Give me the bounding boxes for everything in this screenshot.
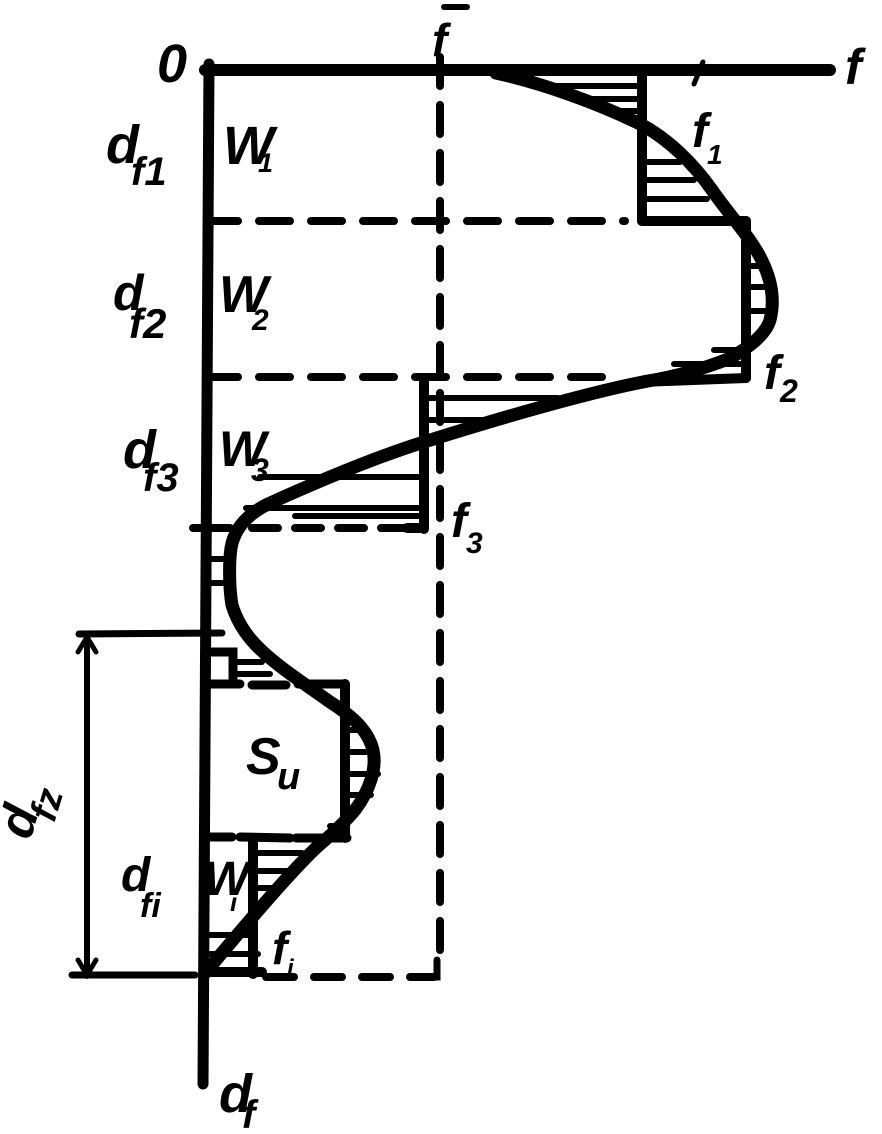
label Wi: [204, 853, 253, 917]
bracket top line: [79, 633, 222, 634]
svg-text:W: W: [204, 853, 253, 906]
label d_f2: [113, 265, 166, 347]
step f2 bottom horizontal: [640, 378, 746, 382]
hatch lines f2 right: [750, 266, 769, 311]
label Su: [246, 728, 300, 798]
step f1-f2 horizontal: [642, 216, 746, 226]
svg-text:u: u: [277, 756, 300, 798]
svg-text:f3: f3: [143, 456, 179, 500]
label f-bar: [432, 14, 452, 66]
f-bar overbar: [444, 4, 467, 10]
svg-text:1: 1: [707, 139, 723, 170]
hatch Su bottom pocket: [330, 823, 346, 829]
hatch lines Wi right: [258, 853, 302, 888]
hatch lines f2 bottom: [674, 350, 742, 364]
hatch slivers along axis: [211, 559, 227, 583]
main distribution curve: [205, 73, 772, 973]
label W1: [223, 116, 278, 178]
label d_f3: [123, 420, 179, 500]
label d_f bottom: [219, 1064, 259, 1134]
label f1 right: [692, 105, 723, 170]
bracket top arrowhead: [78, 637, 96, 652]
hatch lines f1 lower: [647, 162, 707, 199]
Su step right edge: [340, 684, 350, 838]
Wi zone top line: [204, 837, 347, 838]
label d_fi left: [121, 849, 162, 925]
dashed level line 3: [193, 524, 230, 532]
small step bar above Su: [209, 652, 233, 684]
Su step top horizontal: [209, 684, 345, 685]
svg-text:3: 3: [466, 527, 483, 560]
f-bar bottom corner: [420, 960, 437, 977]
hatch small bar pocket: [238, 662, 270, 674]
label W2: [219, 266, 272, 337]
label 0: [157, 34, 187, 94]
svg-text:fi: fi: [140, 887, 162, 925]
axis horizontal f: [205, 64, 830, 76]
dashed bottom line: [266, 973, 434, 981]
svg-text:2: 2: [251, 304, 269, 337]
dashed level line 1: [207, 217, 625, 225]
dashed level line 2: [207, 373, 618, 381]
dimension bracket dfz vertical: [84, 636, 90, 976]
svg-text:0: 0: [157, 34, 187, 94]
hatch lines Wi left: [207, 935, 258, 954]
pen tick on axis: [694, 62, 703, 84]
bracket bottom arrowhead: [78, 960, 96, 975]
hatch lines f3 right: [429, 398, 558, 420]
svg-text:3: 3: [251, 452, 269, 488]
Wi zone bottom line: [204, 967, 262, 977]
label d_fz rotated: [0, 775, 72, 849]
svg-text:S: S: [246, 728, 281, 786]
step bar fi: [248, 838, 258, 974]
label f3 right: [451, 495, 483, 560]
step f3 bottom corner: [407, 523, 424, 533]
hatch lines f3 left: [246, 477, 420, 516]
svg-text:1: 1: [258, 148, 273, 178]
axis vertical d_f: [203, 64, 209, 1084]
label fi: [272, 922, 295, 982]
step bar f3: [419, 378, 429, 529]
label W3: [219, 421, 270, 488]
label d_f1: [106, 115, 167, 194]
svg-text:f2: f2: [129, 300, 166, 347]
hatch lines W1 upper: [556, 86, 637, 111]
step bar f1: [637, 70, 647, 221]
svg-text:2: 2: [779, 373, 798, 409]
bracket bottom line: [72, 972, 195, 979]
label f2 right: [764, 347, 798, 409]
label f axis: [845, 39, 866, 95]
step bar f2: [741, 221, 751, 378]
svg-text:i: i: [230, 887, 238, 917]
hatch lines Su right: [348, 730, 378, 795]
dashed mean line f-bar vertical: [436, 57, 444, 958]
svg-text:f1: f1: [131, 150, 167, 194]
